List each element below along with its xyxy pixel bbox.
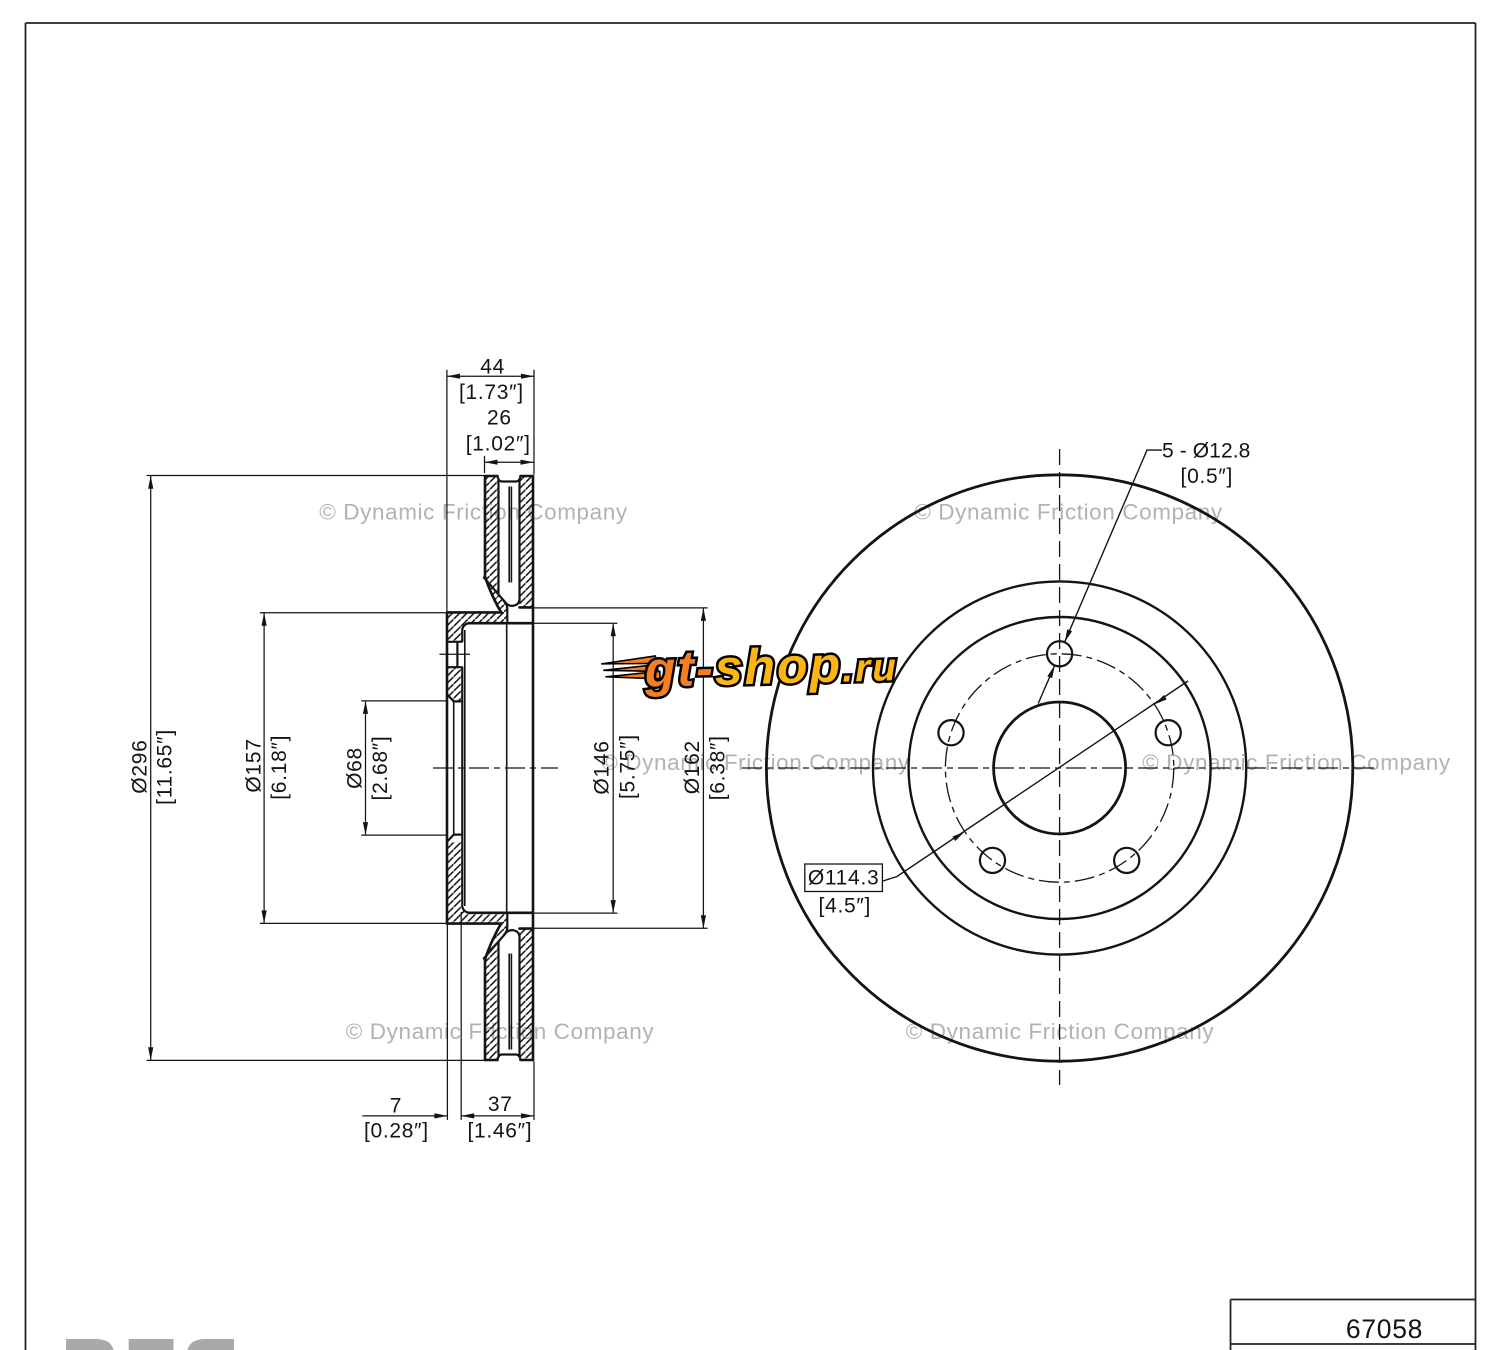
svg-text:Ø114.3: Ø114.3 — [808, 867, 880, 890]
svg-text:Ø157: Ø157 — [243, 738, 266, 792]
svg-text:[11.65″]: [11.65″] — [154, 729, 177, 805]
svg-text:Ø162: Ø162 — [681, 740, 704, 794]
svg-text:© Dynamic Friction Company: © Dynamic Friction Company — [601, 750, 910, 775]
svg-text:[1.73″]: [1.73″] — [459, 381, 524, 404]
svg-text:© Dynamic Friction Company: © Dynamic Friction Company — [914, 500, 1223, 525]
svg-text:26: 26 — [487, 406, 512, 429]
svg-text:[0.28″]: [0.28″] — [364, 1119, 429, 1142]
svg-text:[6.18″]: [6.18″] — [268, 735, 291, 800]
svg-text:[0.5″]: [0.5″] — [1181, 465, 1234, 488]
svg-text:[2.68″]: [2.68″] — [369, 736, 392, 801]
svg-text:© Dynamic Friction Company: © Dynamic Friction Company — [346, 1019, 655, 1044]
svg-text:5 - Ø12.8: 5 - Ø12.8 — [1162, 439, 1250, 462]
svg-text:© Dynamic Friction Company: © Dynamic Friction Company — [1142, 750, 1451, 775]
svg-text:Ø146: Ø146 — [591, 740, 614, 794]
svg-text:© Dynamic Friction Company: © Dynamic Friction Company — [319, 500, 628, 525]
svg-text:67058: 67058 — [1346, 1314, 1423, 1344]
svg-text:37: 37 — [488, 1093, 513, 1116]
svg-text:[5.75″]: [5.75″] — [617, 734, 640, 799]
svg-text:7: 7 — [390, 1095, 402, 1118]
svg-text:Ø68: Ø68 — [344, 747, 367, 789]
svg-text:[1.46″]: [1.46″] — [467, 1119, 532, 1142]
svg-text:44: 44 — [480, 356, 505, 379]
svg-text:Ø296: Ø296 — [128, 740, 151, 794]
svg-text:[6.38″]: [6.38″] — [707, 735, 730, 800]
svg-text:[4.5″]: [4.5″] — [819, 894, 872, 917]
svg-text:[1.02″]: [1.02″] — [466, 433, 531, 456]
